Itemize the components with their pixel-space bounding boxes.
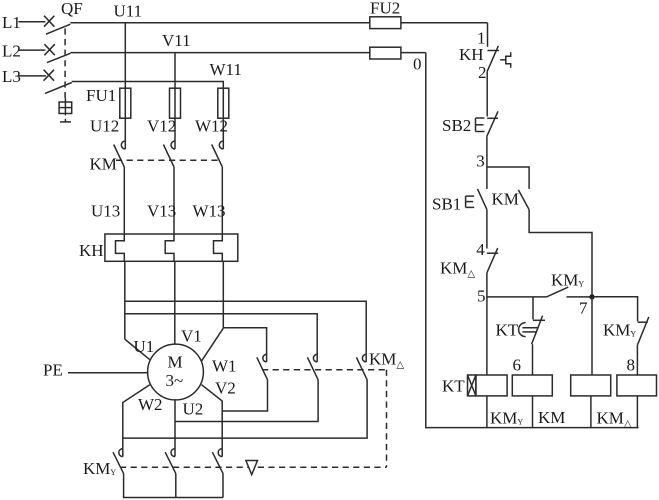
wire node5 horizontal bbox=[487, 296, 547, 298]
node PE bbox=[43, 361, 63, 380]
contactor KM-delta coil bbox=[617, 375, 657, 428]
svg-text:6: 6 bbox=[513, 356, 522, 375]
node U1 bbox=[134, 337, 155, 356]
wire motor W2 lead bbox=[123, 385, 150, 457]
thermal relay KH trip hook bbox=[500, 52, 511, 67]
wire control hot drop bbox=[487, 23, 489, 47]
wire L2 lead bbox=[18, 49, 45, 51]
node V13 bbox=[147, 201, 176, 220]
node 7 junction dot bbox=[589, 294, 594, 299]
svg-text:U13: U13 bbox=[91, 201, 120, 220]
svg-text:L1: L1 bbox=[2, 13, 21, 32]
wire rail to delta contact 3 bbox=[125, 301, 366, 362]
node 2 bbox=[478, 63, 487, 82]
svg-text:5: 5 bbox=[477, 287, 486, 306]
svg-text:W13: W13 bbox=[193, 201, 226, 220]
svg-text:0: 0 bbox=[413, 55, 422, 74]
wire node5 segment bbox=[486, 273, 488, 375]
wire V2 bus to delta contact 1 bbox=[222, 380, 267, 411]
wire node3 segment bbox=[486, 136, 488, 189]
node L2 bbox=[2, 42, 21, 61]
node U2 bbox=[183, 399, 204, 418]
fuse FU1 phase V bbox=[170, 88, 181, 149]
node 1 bbox=[477, 29, 486, 48]
wire rail V11 (L2 phase rail) bbox=[70, 52, 369, 54]
timer KT contact label bbox=[496, 320, 519, 339]
contactor KM aux label bbox=[492, 189, 519, 208]
node L3 bbox=[2, 67, 21, 86]
contactor KM-delta power contact 3 bbox=[356, 354, 367, 380]
contactor KM-Y auxiliary NO contact bbox=[547, 287, 593, 297]
breaker QF pole 1 contact cross bbox=[44, 16, 54, 27]
fuse FU1 label bbox=[86, 86, 116, 105]
motor M terminal W1 lead bbox=[202, 328, 224, 361]
wire node6 segment bbox=[532, 344, 534, 375]
svg-text:KM: KM bbox=[538, 408, 565, 427]
contactor KM label bbox=[90, 155, 117, 174]
node L1 bbox=[2, 13, 21, 32]
node V12 bbox=[147, 117, 176, 136]
breaker QF label bbox=[61, 0, 83, 18]
fuse FU2 lower bbox=[370, 47, 426, 59]
contactor KM-delta power contact 2 bbox=[307, 354, 318, 380]
wire motor V2 lead bbox=[202, 385, 223, 457]
contactor KM main contact phase U bbox=[114, 141, 126, 234]
svg-text:L2: L2 bbox=[2, 42, 21, 61]
svg-text:KMY: KMY bbox=[83, 459, 116, 478]
wire node4 segment bbox=[486, 210, 488, 249]
star linkage marker triangle bbox=[246, 461, 258, 475]
node V11 bbox=[162, 31, 191, 50]
wire V11 drop bbox=[174, 53, 176, 89]
wire phase U below KH bbox=[124, 261, 126, 339]
breaker QF pole 2 blade bbox=[47, 53, 70, 62]
svg-text:FU2: FU2 bbox=[370, 0, 400, 18]
contactor KM-Y power contact 2 bbox=[165, 449, 176, 498]
fuse FU1 phase U bbox=[120, 88, 131, 149]
svg-text:3: 3 bbox=[476, 151, 485, 170]
contactor KM linkage dashed bbox=[116, 159, 220, 161]
node 6 bbox=[513, 356, 522, 375]
wire control neutral rail bbox=[426, 53, 639, 428]
contactor KM-Y coil bbox=[512, 375, 552, 428]
timer KT coil label bbox=[442, 377, 465, 396]
svg-text:V11: V11 bbox=[162, 31, 191, 50]
fuse FU2 label bbox=[370, 0, 400, 18]
wire PE bbox=[68, 372, 148, 374]
svg-text:KMY: KMY bbox=[603, 321, 636, 340]
contactor KM-Y power contact 1 bbox=[113, 449, 124, 498]
node 4 bbox=[476, 240, 485, 259]
wire node7 down to KM coil bbox=[591, 297, 593, 375]
node W13 bbox=[193, 201, 226, 220]
breaker QF operating mechanism bbox=[59, 98, 72, 115]
pushbutton SB2 stop bbox=[476, 111, 499, 136]
timer KT coil delay element bbox=[468, 375, 476, 396]
wire L1 lead bbox=[18, 21, 45, 23]
wire U2 bus to delta contact 2 bbox=[175, 380, 318, 422]
svg-text:KMY: KMY bbox=[551, 270, 584, 289]
contactor KM-Y power contact 3 bbox=[212, 449, 223, 498]
breaker QF linkage dashed bbox=[64, 28, 66, 98]
contactor KM-Y label bbox=[83, 459, 116, 478]
coil label KM-Y bbox=[490, 409, 523, 428]
wire rail U11 (L1 phase top rail) bbox=[70, 22, 369, 24]
svg-text:KM△: KM△ bbox=[440, 258, 475, 279]
svg-text:2: 2 bbox=[478, 63, 487, 82]
breaker QF pole 3 contact cross bbox=[44, 70, 54, 81]
svg-text:W11: W11 bbox=[210, 60, 242, 79]
svg-text:V1: V1 bbox=[181, 326, 202, 345]
contactor KM-Y NC interlock contact bbox=[638, 317, 649, 345]
contactor KM main contact phase W bbox=[212, 141, 224, 234]
wire star point bus bbox=[123, 497, 223, 499]
wire U11 drop bbox=[124, 23, 126, 88]
coil label KM-delta bbox=[597, 409, 632, 430]
pushbutton SB1 label bbox=[432, 194, 461, 213]
svg-text:4: 4 bbox=[476, 240, 485, 259]
svg-text:PE: PE bbox=[43, 361, 63, 380]
thermal relay KH heater phase W bbox=[214, 234, 223, 261]
svg-text:KT: KT bbox=[442, 377, 465, 396]
wire phase V below KH bbox=[174, 261, 176, 344]
contactor KM main contact phase V bbox=[163, 141, 175, 234]
node U13 bbox=[91, 201, 120, 220]
svg-text:U2: U2 bbox=[183, 399, 204, 418]
svg-text:W12: W12 bbox=[195, 117, 228, 136]
breaker QF pole 3 blade bbox=[45, 83, 72, 94]
contactor KM-delta label bbox=[369, 350, 404, 371]
svg-text:M: M bbox=[168, 353, 183, 372]
svg-text:KM: KM bbox=[90, 155, 117, 174]
fuse FU1 phase W bbox=[218, 88, 229, 149]
wire node3 branch to KM aux bbox=[487, 167, 529, 189]
contactor KM auxiliary NO contact bbox=[518, 190, 592, 297]
svg-text:U12: U12 bbox=[90, 117, 119, 136]
svg-text:KM△: KM△ bbox=[369, 350, 404, 371]
KM-Y interlock label bbox=[603, 321, 636, 340]
node 8 bbox=[627, 356, 636, 375]
node U11 bbox=[114, 1, 143, 20]
node V1 bbox=[181, 326, 202, 345]
svg-text:W1: W1 bbox=[212, 356, 237, 375]
motor M label bbox=[166, 353, 184, 391]
svg-text:KM△: KM△ bbox=[597, 409, 632, 430]
contactor KM-delta power contact 1 bbox=[257, 354, 268, 380]
node 5 bbox=[477, 287, 486, 306]
svg-text:V2: V2 bbox=[215, 379, 236, 398]
svg-text:L3: L3 bbox=[2, 67, 21, 86]
pushbutton SB1 start bbox=[466, 189, 487, 210]
svg-text:W2: W2 bbox=[138, 395, 163, 414]
contactor KM-Y linkage dashed bbox=[120, 466, 387, 468]
wire rail to delta contact 2 bbox=[125, 314, 317, 362]
wire node2 segment bbox=[486, 71, 488, 116]
thermal relay KH heater phase U bbox=[116, 234, 125, 261]
svg-text:KH: KH bbox=[459, 45, 484, 64]
node 0 bbox=[413, 55, 422, 74]
svg-text:KH: KH bbox=[79, 241, 104, 260]
svg-text:KMY: KMY bbox=[490, 409, 523, 428]
svg-text:KT: KT bbox=[496, 320, 519, 339]
wire motor U2 lead bbox=[174, 400, 176, 457]
node V2 bbox=[215, 379, 236, 398]
thermal relay KH contact label bbox=[459, 45, 484, 64]
node 3 bbox=[476, 151, 485, 170]
svg-text:V13: V13 bbox=[147, 201, 176, 220]
breaker QF pole 1 blade bbox=[46, 24, 71, 34]
svg-text:SB2: SB2 bbox=[442, 116, 471, 135]
svg-text:SB1: SB1 bbox=[432, 194, 461, 213]
node W1 bbox=[212, 356, 237, 375]
svg-text:3~: 3~ bbox=[166, 371, 184, 390]
wire W2 bus to delta contact 3 bbox=[123, 380, 367, 438]
KM-delta interlock label bbox=[440, 258, 475, 279]
node W11 bbox=[210, 60, 242, 79]
svg-text:U11: U11 bbox=[114, 1, 143, 20]
svg-text:QF: QF bbox=[61, 0, 83, 18]
node 7 bbox=[579, 299, 588, 318]
motor M circle bbox=[148, 344, 204, 400]
node W12 bbox=[195, 117, 228, 136]
wire rail W11 (L3 phase rail) bbox=[72, 82, 224, 89]
thermal relay KH NC contact bbox=[487, 46, 499, 72]
wire rail to delta contact 1 bbox=[223, 328, 266, 362]
timer KT delayed NC contact bbox=[532, 316, 545, 345]
thermal relay KH box bbox=[105, 234, 238, 261]
coil label KM bbox=[538, 408, 565, 427]
KM-Y aux label bbox=[551, 270, 584, 289]
svg-text:FU1: FU1 bbox=[86, 86, 116, 105]
svg-text:KM: KM bbox=[492, 189, 519, 208]
thermal relay KH label bbox=[79, 241, 104, 260]
contactor KM-delta linkage dashed bbox=[262, 370, 387, 468]
wire node7 to KM-Y NC branch bbox=[592, 297, 638, 322]
svg-text:7: 7 bbox=[579, 299, 588, 318]
svg-text:8: 8 bbox=[627, 356, 636, 375]
breaker QF pole 2 contact cross bbox=[44, 44, 54, 55]
wire phase W below KH bbox=[222, 261, 224, 328]
svg-text:U1: U1 bbox=[134, 337, 155, 356]
svg-text:V12: V12 bbox=[147, 117, 176, 136]
timer KT branch wire bbox=[532, 297, 534, 320]
contactor KM coil bbox=[571, 375, 611, 428]
timer KT coil bbox=[476, 375, 507, 428]
fuse FU2 upper bbox=[370, 17, 488, 29]
pushbutton SB2 label bbox=[442, 116, 471, 135]
thermal relay KH heater phase V bbox=[165, 234, 174, 261]
timer KT delay cup bbox=[519, 323, 539, 337]
node U12 bbox=[90, 117, 119, 136]
breaker QF mechanism pedestal bbox=[60, 119, 71, 122]
wire L3 lead bbox=[18, 75, 46, 77]
motor M terminal U1 lead bbox=[125, 339, 150, 359]
wire node8 segment bbox=[636, 345, 638, 375]
contactor KM-delta NC interlock contact bbox=[487, 248, 498, 273]
node W2 bbox=[138, 395, 163, 414]
